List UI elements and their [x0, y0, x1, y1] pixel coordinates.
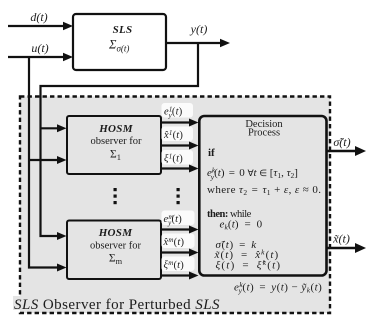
- block Decision Process: [199, 116, 326, 276]
- wire u feedback branch: [29, 57, 67, 272]
- wire e_y^1(t): [161, 119, 199, 127]
- svg-text:y(t): y(t): [190, 22, 208, 36]
- label e_y^1(t): [162, 103, 194, 120]
- wire xhat^m(t): [161, 249, 199, 257]
- dashed box: SLS Observer for Perturbed SLS: [20, 97, 330, 314]
- svg-text:if: if: [208, 147, 215, 159]
- block HOSM observer m: [67, 221, 161, 280]
- wire xi^m(t): [161, 272, 199, 280]
- svg-text:Process: Process: [248, 128, 280, 139]
- svg-text:observer for: observer for: [90, 241, 142, 252]
- label xi^1(t): [162, 150, 194, 165]
- svg-text:ξ(t) = ξ̂k(t): ξ(t) = ξ̂k(t): [216, 258, 282, 272]
- svg-text:SLS Observer for Perturbed SLS: SLS Observer for Perturbed SLS: [14, 297, 220, 313]
- svg-text:where τ2 = τ1 + ε, ε ≈ 0.: where τ2 = τ1 + ε, ε ≈ 0.: [207, 184, 321, 197]
- dots between observers (left): [114, 188, 117, 204]
- wire u into HOSM1: [28, 156, 67, 164]
- svg-text:ξ1(t): ξ1(t): [164, 152, 183, 164]
- svg-text:HOSM: HOSM: [98, 123, 134, 135]
- formula e_y^k(t) = y(t) - yhat_k(t): [234, 280, 322, 295]
- svg-text:ξm(t): ξm(t): [164, 259, 185, 271]
- svg-text:d(t): d(t): [30, 10, 47, 24]
- wire u(t) input: [8, 41, 73, 61]
- wire d(t) input: [8, 10, 73, 30]
- wire xi^1(t): [161, 165, 199, 173]
- label xhat^1(t): [162, 127, 194, 142]
- label e_y^m(t): [162, 211, 195, 228]
- wire e_y^m(t): [161, 226, 199, 234]
- svg-text:x̂1(t): x̂1(t): [163, 129, 183, 141]
- block HOSM observer 1: [67, 116, 161, 174]
- svg-text:σ̃(t): σ̃(t): [333, 135, 350, 149]
- dots between observers (right): [177, 188, 180, 204]
- svg-text:SLS: SLS: [113, 24, 133, 36]
- wire sigma~(t) output: [327, 135, 366, 156]
- block SLS Sigma_sigma(t): [73, 14, 166, 70]
- label xi^m(t): [162, 257, 195, 272]
- wire y(t) output: [166, 22, 230, 47]
- wire y feedback branch: [41, 43, 199, 240]
- svg-text:u(t): u(t): [31, 41, 48, 55]
- svg-text:observer for: observer for: [90, 136, 142, 147]
- wire x~(t) output: [327, 232, 366, 254]
- svg-text:HOSM: HOSM: [98, 227, 134, 239]
- label xhat^m(t): [162, 234, 195, 249]
- svg-text:x̂m(t): x̂m(t): [163, 236, 185, 248]
- caption: SLS Observer for Perturbed SLS: [13, 296, 220, 313]
- svg-text:x̃(t): x̃(t): [332, 232, 350, 246]
- wire y into HOSM1: [40, 124, 67, 132]
- wire xhat^1(t): [161, 142, 199, 150]
